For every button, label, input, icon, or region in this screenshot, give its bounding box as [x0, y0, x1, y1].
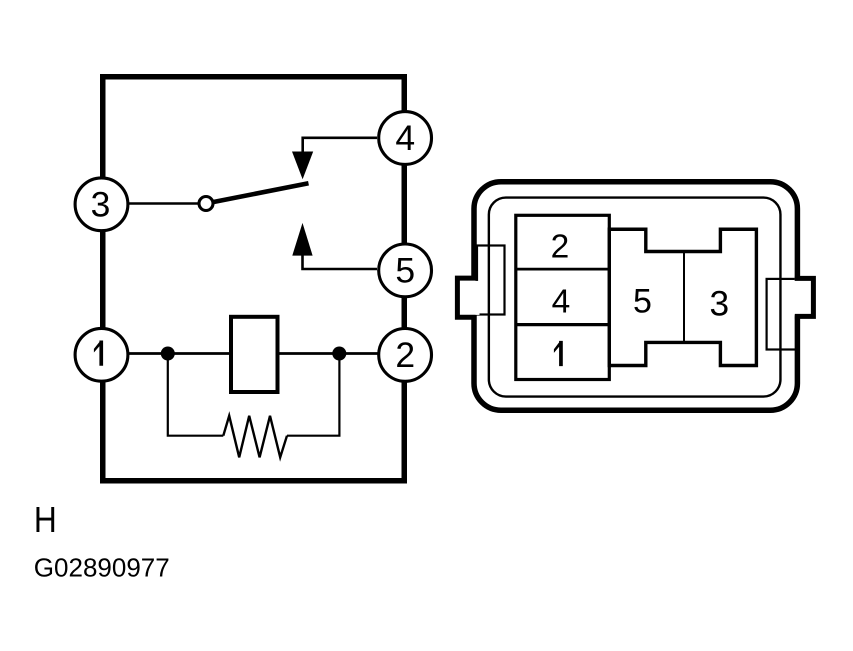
- cavity divider lower: [516, 323, 610, 326]
- right latch slot: [767, 279, 797, 350]
- wire pin5 to NC contact: [303, 255, 378, 269]
- svg-text:5: 5: [633, 282, 652, 320]
- left ear mask: [456, 281, 480, 315]
- pin 3 terminal: [75, 178, 128, 231]
- left latch slot: [477, 246, 505, 315]
- right ear mask: [793, 281, 802, 315]
- wire pin4 to NO contact: [303, 138, 377, 152]
- coil: [231, 317, 278, 392]
- NO contact arrow (points down): [292, 152, 313, 180]
- wire pin3 to switch pivot: [126, 202, 199, 205]
- NC contact arrow (points up): [292, 223, 312, 256]
- svg-text:4: 4: [395, 118, 415, 158]
- wire pin1 to coil: [128, 352, 231, 355]
- svg-text:2: 2: [551, 228, 570, 265]
- connector outer housing: [474, 182, 797, 411]
- pin 1 terminal: [75, 328, 128, 381]
- left mounting ear: [457, 278, 475, 317]
- pin 5 terminal: [379, 244, 432, 297]
- cavity divider upper: [516, 268, 610, 271]
- svg-text:4: 4: [552, 283, 571, 320]
- pin 2 terminal: [379, 329, 432, 382]
- junction node left: [161, 347, 175, 361]
- pin 4 terminal: [379, 112, 432, 165]
- relay case outline K1: [103, 77, 405, 481]
- cavity 5-3 center wall: [683, 252, 685, 343]
- svg-text:H: H: [34, 499, 57, 540]
- svg-text:3: 3: [709, 284, 729, 323]
- cavity column 2-4-1: [516, 215, 610, 379]
- svg-text:2: 2: [395, 335, 415, 375]
- connector inner housing: [489, 198, 781, 397]
- svg-text:G02890977: G02890977: [34, 552, 170, 582]
- wire coil to pin2: [278, 352, 381, 355]
- junction node right: [332, 347, 346, 361]
- cavity 5-3 keyway outline: [609, 229, 756, 365]
- switch blade: [214, 183, 309, 202]
- cavity 1 label: [554, 341, 563, 366]
- switch pivot contact: [199, 197, 213, 211]
- svg-text:5: 5: [395, 251, 415, 291]
- wire resistor branch left: [168, 354, 224, 436]
- resistor R1: [223, 416, 287, 458]
- svg-text:3: 3: [91, 185, 111, 225]
- wire resistor branch right: [287, 354, 339, 436]
- right mounting ear: [795, 278, 814, 316]
